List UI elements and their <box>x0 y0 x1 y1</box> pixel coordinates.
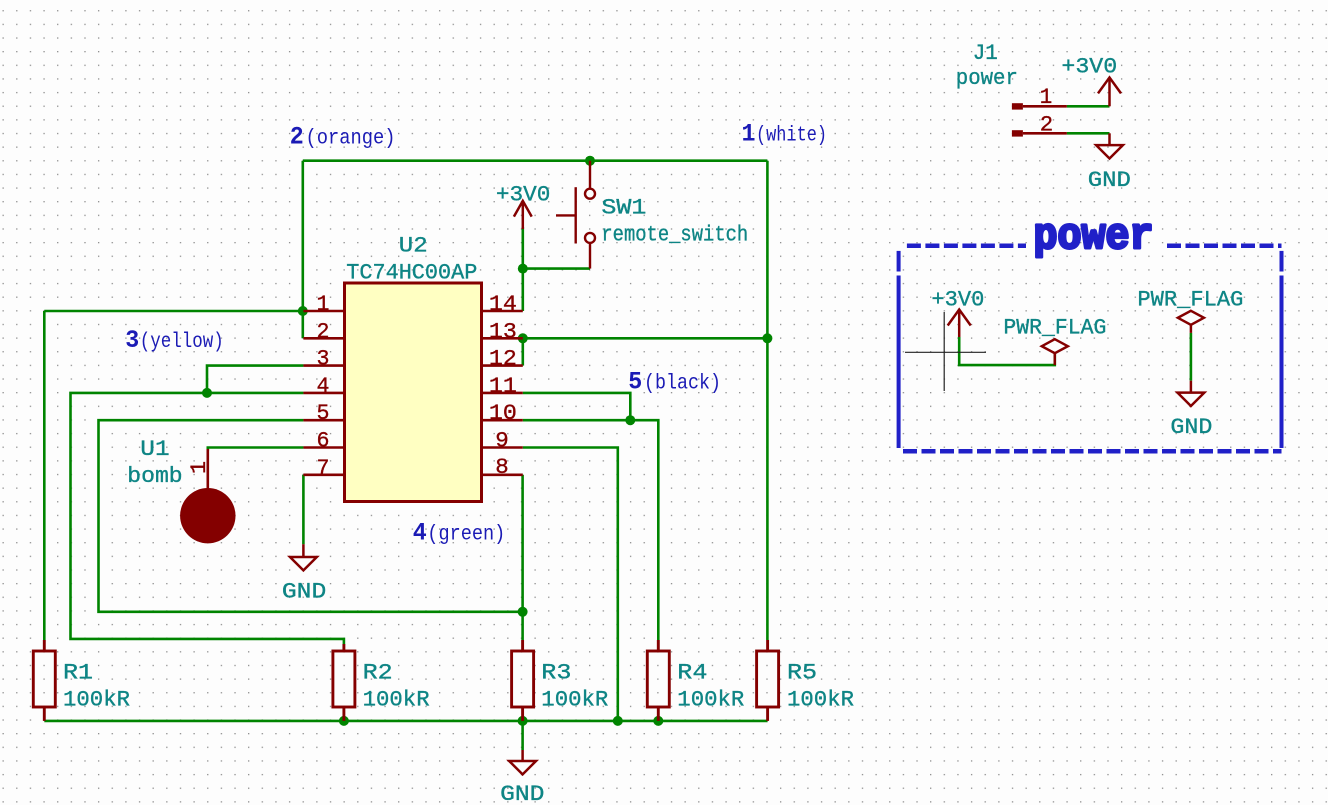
svg-text:5: 5 <box>317 400 330 426</box>
wire pin4 to R2 <box>71 393 344 644</box>
svg-text:13: 13 <box>489 318 517 344</box>
+3V0 symbol at J1 <box>1098 78 1121 107</box>
ground symbol in box <box>1178 381 1205 406</box>
wire R3 to gnd <box>521 721 524 750</box>
wire 3v0 vertical to pin14 <box>521 227 524 311</box>
ground symbol at J1 <box>1096 133 1123 158</box>
U2 pin 9 <box>482 446 523 449</box>
wire net2 top horizontal <box>303 159 768 162</box>
J1 pin2 line <box>1023 132 1067 135</box>
U2 pin 4 <box>303 392 344 395</box>
svg-text:1: 1 <box>742 119 756 148</box>
svg-text:U1: U1 <box>140 436 169 462</box>
wire pin3 to junction <box>207 366 303 393</box>
svg-text:1: 1 <box>1040 84 1053 110</box>
svg-text:(yellow): (yellow) <box>140 330 224 354</box>
U1 bomb pin <box>207 449 210 489</box>
junction bus R3 <box>518 716 528 726</box>
wire pin11 to junction <box>523 393 631 420</box>
junction bus R2 <box>339 716 349 726</box>
svg-text:10: 10 <box>489 400 517 426</box>
svg-text:2: 2 <box>317 318 330 344</box>
svg-text:1: 1 <box>186 461 212 474</box>
connector J1 pin2 pad <box>1012 130 1023 136</box>
U2 pin 3 <box>303 364 344 367</box>
svg-text:(orange): (orange) <box>306 126 396 150</box>
U2 pin 8 <box>482 473 523 476</box>
U2 pin 6 <box>303 446 344 449</box>
svg-text:GND: GND <box>282 578 326 604</box>
svg-text:12: 12 <box>489 346 517 372</box>
svg-text:11: 11 <box>489 373 517 399</box>
svg-text:100kR: 100kR <box>363 687 430 713</box>
IC U2 body <box>345 283 482 502</box>
svg-text:(green): (green) <box>427 522 505 546</box>
svg-text:+3V0: +3V0 <box>931 287 984 313</box>
wire bottom bus <box>44 720 767 723</box>
svg-text:5: 5 <box>628 368 642 397</box>
junction bus pin9 <box>613 716 623 726</box>
wire pin12 vertical <box>521 338 524 365</box>
U2 pin 11 <box>482 392 523 395</box>
U2 pin 10 <box>482 419 523 422</box>
svg-text:PWR_FLAG: PWR_FLAG <box>1003 314 1106 340</box>
resistor R5 <box>757 640 779 721</box>
svg-text:8: 8 <box>495 454 509 480</box>
svg-text:remote_switch: remote_switch <box>601 222 748 248</box>
resistor R1 <box>33 640 55 721</box>
svg-text:(black): (black) <box>644 372 721 396</box>
svg-text:2: 2 <box>290 122 304 151</box>
svg-text:+3V0: +3V0 <box>496 181 551 207</box>
svg-text:PWR_FLAG: PWR_FLAG <box>1137 286 1243 312</box>
junction 3v0 <box>518 264 528 274</box>
svg-text:power: power <box>1034 212 1154 262</box>
wire box pwr_flag to gnd <box>1190 333 1193 381</box>
power box dashed border <box>899 246 1282 452</box>
svg-text:(white): (white) <box>756 123 827 147</box>
svg-text:1: 1 <box>317 291 330 317</box>
+3V0 symbol in box <box>948 310 971 338</box>
junction pin10-11 <box>625 415 635 425</box>
svg-text:3: 3 <box>125 326 139 355</box>
svg-text:R4: R4 <box>677 659 707 685</box>
wire J1 pin1 <box>1067 105 1110 108</box>
svg-text:2: 2 <box>1040 112 1054 138</box>
wire switch to 3v0 <box>523 267 590 270</box>
ground symbol at pin7 <box>290 544 317 570</box>
wire net1 right vertical to R5 <box>766 161 769 640</box>
svg-text:6: 6 <box>317 428 330 454</box>
svg-text:3: 3 <box>317 346 330 372</box>
wire pin1 horizontal left <box>44 310 303 313</box>
svg-text:R3: R3 <box>541 659 571 685</box>
svg-text:14: 14 <box>489 291 517 317</box>
PWR_FLAG right <box>1178 311 1204 333</box>
U1 bomb body <box>180 488 235 543</box>
wire left vertical to R1 <box>43 311 46 640</box>
svg-text:bomb: bomb <box>127 463 182 489</box>
svg-text:4: 4 <box>413 518 427 547</box>
PWR_FLAG left <box>1042 339 1068 365</box>
svg-text:100kR: 100kR <box>787 687 854 713</box>
wire pin10 to R4 <box>523 420 659 640</box>
svg-text:4: 4 <box>317 373 330 399</box>
U2 pin 14 <box>482 310 523 313</box>
+3V0 symbol at SW1 <box>514 201 532 229</box>
crosshair anchor <box>905 312 986 391</box>
junction pin13 left <box>518 333 528 343</box>
U2 pin 2 <box>303 337 344 340</box>
svg-text:100kR: 100kR <box>63 687 130 713</box>
svg-text:R5: R5 <box>787 659 817 685</box>
svg-text:R2: R2 <box>363 659 393 685</box>
wire pin6 to bomb <box>208 448 304 451</box>
junction pin5-8 <box>518 607 528 617</box>
svg-text:+3V0: +3V0 <box>1061 54 1117 80</box>
svg-text:TC74HC00AP: TC74HC00AP <box>346 259 477 285</box>
U2 pin 13 <box>482 337 523 340</box>
svg-text:100kR: 100kR <box>541 687 608 713</box>
U2 pin 12 <box>482 364 523 367</box>
wire net2 vertical to pin2 <box>301 161 304 339</box>
resistor R3 <box>512 640 534 721</box>
wire J1 pin2 <box>1067 132 1110 135</box>
svg-text:J1: J1 <box>973 40 998 66</box>
svg-text:9: 9 <box>495 428 509 454</box>
svg-text:GND: GND <box>500 781 544 805</box>
junction pin13 right <box>762 333 772 343</box>
wire box +3V0 to pwr_flag <box>959 337 1055 365</box>
junction bus R4 <box>653 716 663 726</box>
resistor R2 <box>333 644 355 721</box>
svg-text:power: power <box>956 65 1018 91</box>
junction sw1 top <box>585 156 595 166</box>
wire pin13 horizontal <box>523 337 768 340</box>
junction pin3-4 <box>202 388 212 398</box>
wire pin8 vertical to R3 <box>521 475 524 640</box>
wire pin5 long route <box>99 420 523 612</box>
svg-text:R1: R1 <box>63 659 93 685</box>
ground symbol at R3 <box>509 750 536 774</box>
wire pin7 to gnd <box>302 475 305 544</box>
svg-text:GND: GND <box>1170 414 1212 440</box>
junction pin1 <box>298 306 308 316</box>
svg-text:SW1: SW1 <box>601 195 646 221</box>
U2 pin 7 <box>303 473 344 476</box>
svg-text:7: 7 <box>317 455 330 481</box>
svg-text:100kR: 100kR <box>677 687 744 713</box>
wire pin9 down <box>523 448 618 721</box>
J1 pin1 line <box>1023 105 1067 108</box>
connector J1 pin1 pad <box>1012 103 1023 109</box>
U2 pin 5 <box>303 419 344 422</box>
svg-text:GND: GND <box>1088 167 1131 193</box>
resistor R4 <box>647 640 669 721</box>
svg-text:U2: U2 <box>399 233 428 259</box>
switch SW1 <box>556 161 595 269</box>
U2 pin 1 <box>303 310 344 313</box>
